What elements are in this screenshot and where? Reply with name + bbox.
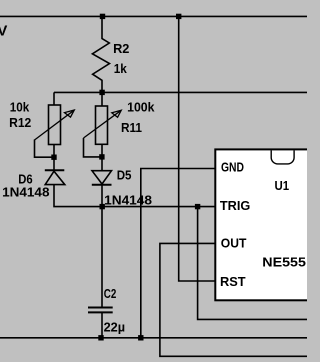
svg-text:9V: 9V bbox=[0, 23, 7, 40]
svg-text:OUT: OUT bbox=[221, 237, 247, 251]
svg-text:R12: R12 bbox=[9, 116, 31, 130]
svg-text:GND: GND bbox=[221, 161, 244, 175]
svg-text:D6: D6 bbox=[18, 172, 32, 186]
svg-text:RST: RST bbox=[220, 275, 246, 289]
svg-text:TRIG: TRIG bbox=[220, 199, 251, 213]
svg-text:1k: 1k bbox=[114, 62, 128, 76]
svg-text:R11: R11 bbox=[121, 121, 142, 135]
svg-text:22µ: 22µ bbox=[104, 321, 126, 335]
svg-text:1N4148: 1N4148 bbox=[2, 185, 49, 199]
svg-text:1N4148: 1N4148 bbox=[104, 193, 152, 207]
svg-text:100k: 100k bbox=[127, 101, 155, 115]
svg-text:C2: C2 bbox=[104, 287, 117, 301]
svg-text:D5: D5 bbox=[117, 168, 132, 182]
svg-text:R2: R2 bbox=[113, 42, 129, 56]
svg-text:NE555: NE555 bbox=[262, 254, 306, 269]
svg-text:U1: U1 bbox=[275, 179, 290, 193]
svg-text:10k: 10k bbox=[10, 101, 30, 115]
